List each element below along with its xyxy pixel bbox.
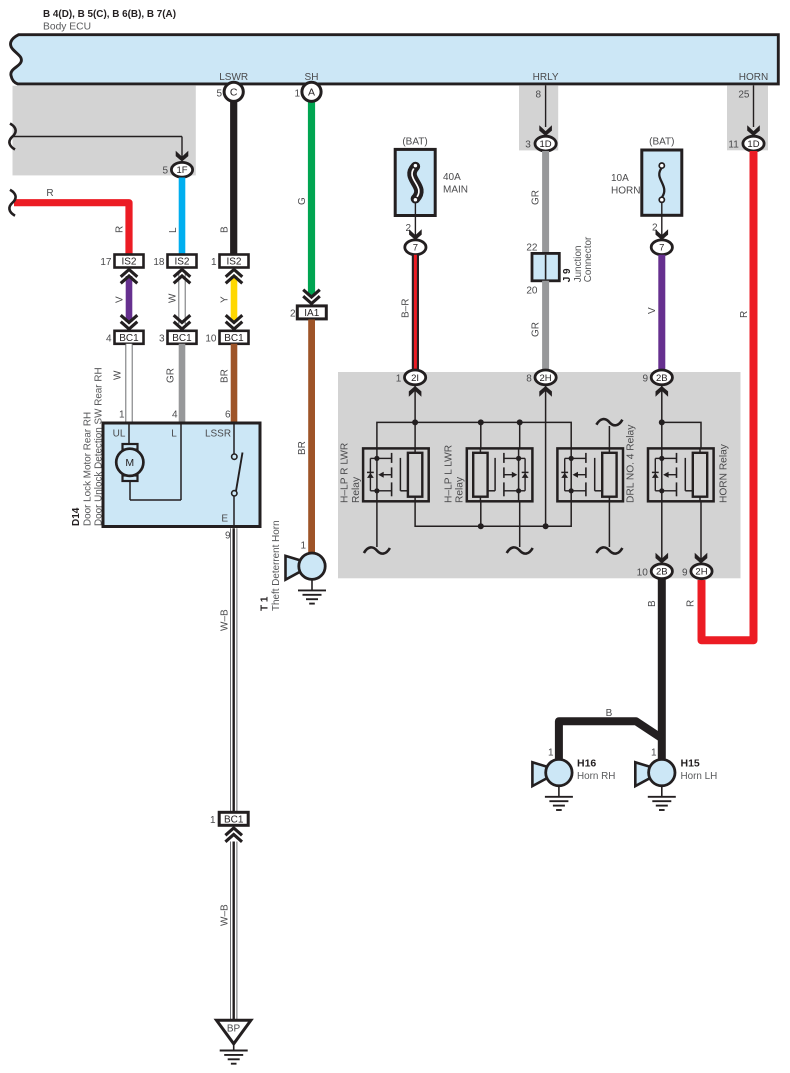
svg-text:9: 9 — [682, 567, 688, 578]
svg-text:(BAT): (BAT) — [402, 137, 427, 148]
wire B black to horns — [658, 580, 666, 759]
svg-text:1: 1 — [294, 88, 300, 99]
wire Y yellow IS2-BC1 — [231, 276, 238, 322]
svg-text:10: 10 — [205, 333, 217, 344]
svg-text:BC1: BC1 — [224, 814, 244, 825]
svg-text:1: 1 — [119, 410, 125, 421]
wire to 1F connector — [13, 136, 183, 138]
svg-text:Horn LH: Horn LH — [681, 771, 718, 782]
wire HLP-L coil top — [480, 422, 482, 448]
wire HORN relay mosfet to 2B — [661, 501, 663, 563]
wire HLP-L mosfet bottom break — [519, 501, 521, 547]
junction dot 2I bus — [412, 419, 418, 425]
svg-text:1: 1 — [300, 541, 306, 552]
svg-text:HRLY: HRLY — [533, 72, 559, 83]
junction connector J9 — [532, 253, 559, 280]
connector 2B pin 9 — [656, 386, 669, 397]
motor M D14 — [128, 423, 130, 445]
wire 2I to relay coil — [414, 386, 416, 449]
wire HORN relay coil to 2H — [700, 501, 702, 563]
junction dot 2H lower bus — [543, 523, 549, 529]
relay H-LP L LWR — [518, 448, 520, 501]
svg-text:1: 1 — [651, 748, 657, 759]
svg-text:1: 1 — [396, 374, 402, 385]
svg-text:R: R — [115, 226, 126, 233]
wire GR gray BC1-D14 — [179, 344, 186, 424]
svg-text:B–R: B–R — [401, 299, 412, 318]
svg-text:Relay: Relay — [455, 476, 466, 503]
svg-text:5: 5 — [162, 166, 168, 177]
relay H-LP R LWR — [376, 448, 378, 501]
wire W-B upper — [231, 528, 237, 812]
svg-text:H16: H16 — [577, 758, 596, 770]
svg-text:25: 25 — [738, 90, 750, 101]
svg-text:2: 2 — [290, 309, 296, 320]
svg-text:BC1: BC1 — [119, 333, 139, 344]
svg-text:BC1: BC1 — [224, 333, 244, 344]
svg-text:B: B — [647, 600, 658, 607]
svg-text:GR: GR — [166, 368, 177, 383]
svg-text:HORN: HORN — [611, 186, 640, 197]
svg-text:1D: 1D — [540, 139, 552, 150]
svg-text:W–B: W–B — [220, 904, 231, 926]
component D14 Door Lock Motor Rear RH box — [103, 423, 260, 527]
svg-text:V: V — [647, 307, 658, 314]
svg-text:4: 4 — [106, 333, 112, 344]
svg-text:C: C — [230, 87, 238, 99]
svg-text:Y: Y — [220, 296, 231, 303]
svg-text:LSSR: LSSR — [205, 429, 231, 440]
svg-text:2H: 2H — [540, 373, 552, 384]
svg-text:B: B — [606, 708, 613, 719]
svg-text:BP: BP — [227, 1024, 241, 1035]
svg-text:2B: 2B — [656, 373, 668, 384]
svg-text:8: 8 — [526, 374, 532, 385]
svg-text:BR: BR — [220, 369, 231, 383]
svg-text:W–B: W–B — [220, 609, 231, 631]
wire HLP-R mosfet bottom break — [376, 501, 378, 547]
svg-text:G: G — [297, 197, 308, 205]
wire G green — [308, 102, 315, 296]
wire W white BC1-D14 — [126, 344, 132, 424]
svg-text:17: 17 — [100, 257, 112, 268]
svg-text:10A: 10A — [611, 173, 629, 184]
wire HLP-L mosfet top — [519, 422, 521, 448]
wire W white IS2-BC1 — [179, 274, 185, 324]
svg-text:W: W — [168, 293, 179, 303]
svg-text:R: R — [739, 311, 750, 318]
svg-text:R: R — [46, 188, 53, 199]
svg-text:5: 5 — [216, 88, 222, 99]
svg-text:1: 1 — [211, 257, 217, 268]
wire DRL coil bottom break — [608, 501, 610, 547]
svg-text:3: 3 — [525, 139, 531, 150]
wire B-R black-red — [412, 255, 419, 371]
svg-text:2H: 2H — [695, 567, 707, 578]
svg-text:Theft Deterrent Horn: Theft Deterrent Horn — [271, 520, 282, 611]
svg-text:Door Lock Motor Rear RH: Door Lock Motor Rear RH — [83, 412, 94, 526]
svg-text:2B: 2B — [656, 567, 668, 578]
wire V violet to relay — [658, 255, 665, 371]
svg-text:(BAT): (BAT) — [649, 137, 674, 148]
wire BR brown to theft horn — [308, 320, 315, 554]
svg-text:3: 3 — [159, 333, 165, 344]
svg-text:V: V — [115, 296, 126, 303]
svg-text:D14: D14 — [71, 507, 82, 526]
svg-text:L: L — [171, 429, 177, 440]
wire HORN pin 25 — [753, 85, 755, 127]
connector 2B pin 10 bottom — [656, 553, 669, 564]
wire 2B to HORN relay — [661, 386, 663, 449]
Body ECU band — [11, 35, 779, 84]
svg-text:HORN: HORN — [739, 72, 768, 83]
svg-text:BC1: BC1 — [172, 333, 192, 344]
svg-text:J 9: J 9 — [562, 268, 573, 282]
svg-text:1D: 1D — [747, 139, 759, 150]
wire GR gray lower — [542, 281, 549, 371]
svg-text:6: 6 — [225, 410, 231, 421]
svg-text:H15: H15 — [681, 758, 700, 770]
svg-text:1: 1 — [548, 748, 554, 759]
svg-text:GR: GR — [531, 322, 542, 337]
wire LSWR black B — [230, 102, 237, 255]
wire DRL coil top break — [596, 419, 622, 425]
svg-text:Door Unlock Detection SW Rear: Door Unlock Detection SW Rear RH — [94, 367, 105, 526]
svg-text:11: 11 — [728, 139, 739, 150]
wire GR gray upper — [542, 151, 549, 254]
svg-text:IA1: IA1 — [304, 308, 319, 319]
wire L blue from 1F — [179, 178, 186, 256]
svg-text:8: 8 — [535, 90, 541, 101]
svg-text:Connector: Connector — [583, 236, 594, 282]
fuse MAIN pin 2 wire — [414, 202, 416, 240]
wire V violet IS2-BC1 — [126, 276, 133, 322]
ground symbol BP — [220, 1050, 248, 1052]
svg-text:IS2: IS2 — [121, 257, 136, 268]
ground point BP — [217, 1020, 251, 1044]
svg-text:T 1: T 1 — [260, 596, 271, 611]
relay HORN — [661, 448, 663, 501]
relay DRL NO. 4 — [570, 448, 572, 501]
connector 2I pin 1 — [409, 386, 422, 397]
connector 2H pin 9 bottom — [695, 553, 708, 564]
svg-text:18: 18 — [153, 257, 165, 268]
svg-text:2I: 2I — [411, 373, 419, 384]
fuse HORN pin 2 wire — [661, 202, 663, 240]
svg-text:1F: 1F — [176, 165, 187, 176]
svg-text:40A: 40A — [443, 172, 461, 183]
svg-text:DRL NO. 4 Relay: DRL NO. 4 Relay — [625, 424, 636, 503]
wire 2H down to lower bus — [545, 386, 547, 527]
svg-text:GR: GR — [531, 190, 542, 205]
svg-text:A: A — [308, 87, 315, 99]
svg-text:M: M — [125, 457, 134, 469]
svg-text:H–LP L LWR: H–LP L LWR — [443, 445, 454, 503]
svg-text:1: 1 — [210, 815, 216, 826]
svg-text:Relay: Relay — [351, 476, 362, 503]
wire HORN relay coil feed — [662, 422, 701, 448]
svg-text:B 4(D), B 5(C), B 6(B), B 7(A): B 4(D), B 5(C), B 6(B), B 7(A) — [43, 8, 176, 20]
shield box HORN — [727, 86, 768, 151]
svg-text:10: 10 — [637, 567, 649, 578]
svg-text:9: 9 — [642, 374, 648, 385]
relay panel box — [338, 372, 741, 578]
svg-text:B: B — [220, 226, 231, 233]
svg-text:IS2: IS2 — [226, 257, 241, 268]
wire lower bus relay panel — [415, 501, 571, 526]
connector 7 oval MAIN — [405, 240, 426, 255]
ground T1 — [311, 579, 313, 590]
wire W-B lower — [231, 842, 237, 1021]
wire HRLY pin 8 — [545, 85, 547, 127]
svg-text:4: 4 — [172, 410, 178, 421]
svg-text:Horn RH: Horn RH — [577, 771, 615, 782]
svg-text:L: L — [168, 227, 179, 233]
svg-text:MAIN: MAIN — [443, 185, 468, 196]
wire R red right — [702, 151, 754, 640]
svg-text:22: 22 — [526, 242, 538, 253]
connector IA1 pin 2 — [303, 296, 320, 303]
svg-text:H–LP R LWR: H–LP R LWR — [340, 443, 351, 503]
connector 7 oval HORN — [651, 240, 672, 255]
svg-text:7: 7 — [659, 243, 664, 254]
svg-text:R: R — [686, 600, 697, 607]
svg-text:HORN Relay: HORN Relay — [718, 443, 729, 503]
svg-text:BR: BR — [297, 441, 308, 455]
switch LSSR D14 — [233, 423, 235, 454]
svg-text:E: E — [221, 514, 228, 525]
svg-text:W: W — [113, 370, 124, 380]
shield box left (instrument panel harness) — [13, 86, 196, 176]
connector 2H pin 8 — [539, 386, 552, 397]
svg-text:UL: UL — [113, 429, 126, 440]
wire upper bus relay panel — [377, 422, 571, 448]
shield box HRLY — [519, 86, 558, 151]
wire HLP-L coil bottom — [480, 501, 482, 526]
svg-text:7: 7 — [413, 243, 418, 254]
svg-text:IS2: IS2 — [174, 257, 189, 268]
svg-text:Body ECU: Body ECU — [43, 22, 91, 33]
svg-text:20: 20 — [526, 286, 538, 297]
wire BR brown BC1-D14 — [231, 344, 238, 424]
wire R red — [14, 203, 129, 255]
